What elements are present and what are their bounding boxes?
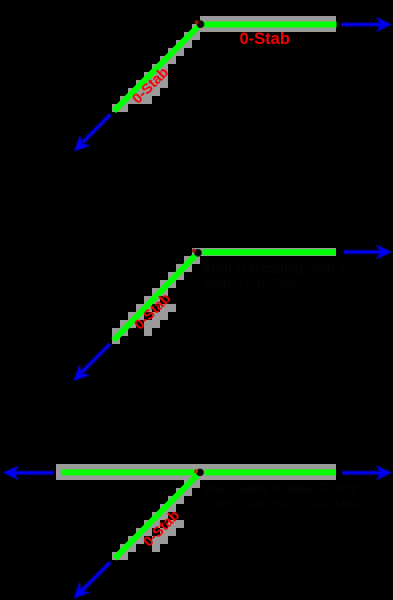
JPEG halo panel 1 <box>112 16 336 112</box>
wire blue axis lower-left <box>82 344 110 372</box>
wire blue axis lower-left <box>83 115 111 143</box>
member S4 diagonal (0-Stab) <box>114 256 196 341</box>
svg-text:Stab 2 = 0-Stab: Stab 2 = 0-Stab <box>203 276 297 291</box>
arrowhead lower-left <box>74 582 91 599</box>
node K1 <box>197 21 204 28</box>
wire blue axis lower-left <box>82 562 110 590</box>
JPEG halo panel 2 <box>112 248 336 344</box>
svg-text:dritter Stab ist ein Nullstab: dritter Stab ist ein Nullstab <box>203 496 361 511</box>
wire blue axis right <box>342 22 383 27</box>
arrowhead left <box>3 465 19 480</box>
arrowhead right <box>376 17 392 32</box>
node K3 <box>197 469 204 476</box>
node K2 <box>195 249 202 256</box>
arrowhead lower-left <box>74 364 91 381</box>
svg-text:Kraft in Richtung Stab 1: Kraft in Richtung Stab 1 <box>203 261 346 276</box>
arrowhead right <box>376 465 392 480</box>
wire blue force axis right <box>344 249 382 254</box>
arrowhead lower-left <box>74 135 91 152</box>
member S5 horizontal left <box>61 469 195 475</box>
wire blue axis left <box>14 470 54 475</box>
svg-text:0-Stab: 0-Stab <box>240 30 290 48</box>
member S2 diagonal (0-Stab) <box>114 27 198 111</box>
member S7 diagonal (0-Stab) <box>115 475 198 558</box>
member S1 horizontal (0-Stab) <box>204 22 336 28</box>
arrowhead right <box>376 244 392 259</box>
member S6 horizontal right <box>205 469 336 475</box>
member S3 horizontal <box>203 249 336 255</box>
wire blue axis right <box>342 470 382 475</box>
svg-text:zwei Stäbe in einer Flucht: zwei Stäbe in einer Flucht <box>203 481 358 496</box>
JPEG halo panel 3 <box>56 464 336 560</box>
